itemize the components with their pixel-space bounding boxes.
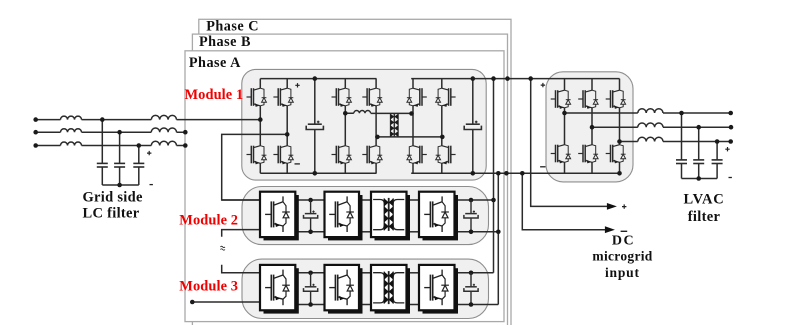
inverter leg1 wire (564, 79, 566, 174)
lvac cap Cv3 (712, 160, 723, 164)
DC plus sign (622, 204, 626, 208)
bus1 vertical DC+ (493, 79, 495, 273)
inverter leg3 wire (619, 79, 621, 174)
svg-text:Module 2: Module 2 (179, 213, 238, 229)
module2 box2 shadow (328, 195, 363, 240)
phase line 2 wire (36, 131, 186, 133)
node lvac line2 (696, 125, 701, 130)
module3 input bottom wire (192, 301, 260, 303)
DC link2 bottom rail / bottom bus to inverter (411, 172, 619, 174)
node on line2 (117, 130, 122, 135)
node leg3 mid (343, 111, 348, 116)
module2 box1 shadow (264, 195, 299, 240)
DC link capacitor C1 (306, 121, 323, 130)
module 3 box (242, 259, 489, 318)
DC plus arrowhead (607, 203, 617, 210)
svg-text:Phase C: Phase C (206, 18, 259, 34)
module3 box3 shadow (375, 268, 411, 313)
IGBT QR2 (551, 145, 571, 164)
node cap2 bottom (471, 171, 476, 176)
module2 cap1 wire (308, 198, 313, 203)
svg-text:LC filter: LC filter (82, 206, 139, 222)
module 1 box (242, 69, 486, 180)
inductor L3a (61, 142, 82, 146)
DAB primary mid wire with inductor (345, 112, 411, 114)
inductor L2b (151, 128, 176, 132)
module3 cap1 wire (308, 271, 313, 276)
DC link2 top rail / top bus to inverter (411, 78, 619, 80)
DC minus feed wire (522, 173, 605, 229)
node module2 out minus (496, 230, 501, 235)
IGBT Q10 mirrored (407, 146, 427, 165)
inductor L3b (151, 141, 176, 145)
module3 inter-box wires (295, 273, 498, 305)
leg5 wire (412, 79, 414, 174)
module3 box2 IGBT (325, 265, 360, 310)
module2 inter-box wires (295, 200, 498, 232)
inductor L1b (151, 115, 176, 119)
module2 cap2 (464, 211, 478, 219)
lvac terminal node 1 (728, 111, 733, 116)
node bus1 top (491, 76, 496, 81)
node cap1 bottom (313, 171, 318, 176)
IGBT QR5 (606, 90, 626, 109)
phase B box (192, 34, 507, 325)
lvac plus sign (725, 147, 729, 151)
filter cap Cf2 (114, 163, 125, 167)
module1 minus sign (295, 163, 300, 165)
module2 box4 shadow (423, 195, 459, 240)
svg-text:Module 1: Module 1 (185, 87, 244, 103)
DC link1 top rail (260, 78, 376, 80)
DC minus arrowhead (605, 226, 615, 233)
filter minus sign (150, 184, 153, 186)
filter cap Cf2 tap wire (119, 132, 121, 185)
node on line1 (100, 117, 105, 122)
inductor Lv3 (638, 137, 663, 141)
leg3 wire (344, 79, 346, 174)
DC link capacitor C2 (464, 121, 481, 130)
node DC minus top (520, 171, 525, 176)
lvac minus sign (729, 177, 732, 179)
node DC plus top (528, 76, 533, 81)
DAB bottom mid wire (377, 136, 442, 138)
IGBT QR6 (606, 145, 626, 164)
module1 plus sign (295, 83, 299, 87)
IGBT Q11 mirrored (436, 88, 456, 107)
lvac cap Cv2 (693, 160, 704, 164)
module3 cap2 (464, 284, 478, 292)
module2 box3 transformer (371, 192, 407, 237)
lvac cap Cv1 (676, 160, 687, 164)
module2 box2 IGBT (325, 192, 360, 237)
IGBT Q8 (362, 146, 382, 165)
module 2 box (242, 187, 489, 245)
lvac cap Cv3 wire (716, 142, 718, 179)
IGBT Q1 (246, 88, 266, 107)
IGBT Q6 (332, 146, 352, 165)
IGBT QR4 (578, 145, 598, 164)
module3 input stub wire (222, 265, 260, 273)
phase C box (199, 19, 511, 325)
inverter leg2 wire (591, 79, 593, 174)
filter cap Cf3 (133, 163, 144, 167)
inductor L1a (61, 116, 82, 120)
node lvac line1 (679, 111, 684, 116)
node top bus phase tie (505, 76, 510, 81)
filter cap Cf3 tap wire (138, 146, 140, 186)
inverter output line 2 (592, 126, 731, 128)
node leg5 mid (409, 111, 414, 116)
phase line 1 wire (36, 119, 261, 121)
filter plus sign (147, 151, 151, 155)
lvac cap Cv1 wire (681, 113, 683, 179)
module3 box2 shadow (328, 268, 363, 313)
lvac terminal node 2 (729, 125, 734, 130)
node leg4 mid (375, 135, 380, 140)
node cap1 top (313, 76, 318, 81)
grid terminal node 2 (33, 130, 38, 135)
IGBT Q7 (362, 88, 382, 107)
grid terminal node 3 (33, 143, 38, 148)
node leg6 mid (440, 135, 445, 140)
module3 box4 shadow (423, 268, 459, 313)
node bottom bus phase tie (504, 171, 509, 176)
IGBT Q9 mirrored (407, 88, 427, 107)
module3 box3 transformer (371, 265, 407, 310)
filter bottom rail wire (102, 184, 139, 186)
inverter minus sign (540, 166, 545, 168)
node inverter mid2 (590, 125, 595, 130)
svg-text:Module 3: Module 3 (179, 279, 238, 295)
right inverter box (546, 72, 633, 182)
cap1 link wire (314, 79, 316, 174)
lvac cap Cv2 wire (698, 127, 700, 178)
cap2 link wire (472, 79, 474, 174)
svg-text:microgrid: microgrid (592, 248, 652, 263)
module2 box3 shadow (375, 195, 411, 240)
module2 box1 IGBT (260, 192, 295, 237)
IGBT Q5 (332, 88, 352, 107)
inverter output line 1 (565, 112, 731, 114)
lvac terminal node 3 (728, 139, 733, 144)
phase line 3 wire (36, 145, 186, 147)
IGBT Q12 mirrored (436, 146, 456, 165)
node inverter mid3 (617, 139, 622, 144)
phase C stub end node (183, 143, 188, 148)
series break symbol (220, 246, 225, 250)
leg2 wire (286, 79, 288, 174)
node leg2 mid (285, 132, 290, 137)
transformer T1 windings (390, 114, 398, 137)
svg-text:input: input (605, 265, 640, 280)
leg6 wire (441, 79, 443, 174)
module3 cap2 wire (469, 271, 474, 276)
DC minus sign (621, 230, 628, 232)
inductor Lv2 (638, 123, 663, 127)
leg1 wire (259, 79, 261, 174)
node lvac line3 (715, 139, 720, 144)
svg-text:Phase B: Phase B (199, 34, 251, 50)
node module2 out plus (491, 198, 496, 203)
svg-text:DC: DC (612, 233, 635, 248)
svg-text:Grid side: Grid side (82, 189, 143, 205)
node bus2 top (496, 171, 501, 176)
svg-text:Phase A: Phase A (189, 55, 241, 71)
module2 input top wire (222, 199, 260, 201)
IGBT Q2 (246, 146, 266, 165)
phase B stub end node (183, 130, 188, 135)
IGBT QR3 (578, 90, 598, 109)
leg4 wire (375, 79, 377, 174)
grid terminal node 1 (33, 117, 38, 122)
DC link1 bottom rail (260, 172, 376, 174)
node inverter mid1 (562, 111, 567, 116)
lvac bottom rail wire (682, 178, 718, 180)
svg-text:LVAC: LVAC (683, 192, 724, 208)
inductor L2a (61, 129, 82, 133)
filter cap Cf1 (97, 163, 108, 167)
phase A box (185, 51, 504, 322)
DC plus feed wire (531, 79, 607, 207)
node phase A input (258, 117, 263, 122)
module3 bottom terminal node (190, 300, 195, 305)
module2 input bottom wire (222, 230, 260, 237)
IGBT Q3 (273, 88, 293, 107)
IGBT QR1 (551, 90, 571, 109)
svg-text:filter: filter (688, 209, 721, 225)
module2 box4 IGBT (419, 192, 455, 237)
IGBT Q4 (273, 146, 293, 165)
filter cap Cf1 tap wire (101, 120, 103, 185)
node cap2 top (471, 76, 476, 81)
node inverter leg3 bottom (617, 171, 622, 176)
node on line3 (137, 143, 142, 148)
module3 box4 IGBT (419, 265, 455, 310)
inductor Lv1 (638, 109, 663, 113)
module3 box1 IGBT (260, 265, 295, 310)
module2 cap1 (304, 211, 318, 219)
node lvac rail (696, 176, 701, 181)
transformer T1 triangles (390, 114, 398, 137)
bus2 vertical DC- (497, 173, 499, 304)
filter rail node (117, 183, 122, 188)
module3 cap1 (304, 284, 318, 292)
DAB inductor Ld (354, 111, 371, 114)
inverter plus sign (541, 83, 545, 87)
module2 cap2 wire (469, 198, 474, 203)
module2 feed wire from leg2 (222, 134, 288, 200)
module3 box1 shadow (264, 268, 299, 313)
inverter output line 3 (620, 141, 731, 143)
